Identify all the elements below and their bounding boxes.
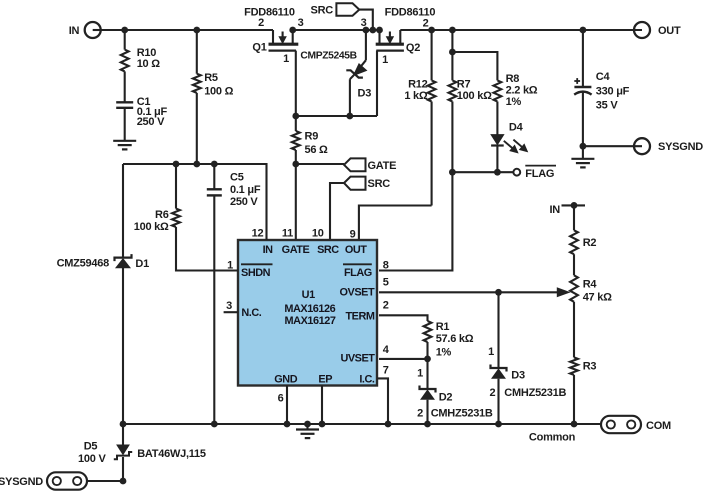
capacitor C1 <box>116 102 133 108</box>
svg-text:D4: D4 <box>509 121 524 133</box>
label D3b pin1 <box>488 346 494 358</box>
svg-text:56 Ω: 56 Ω <box>305 144 329 156</box>
junction dot C5 bottom <box>211 421 218 428</box>
junction dot D3 bottom <box>346 113 353 120</box>
label U1 pin OVSET <box>340 287 375 299</box>
wire rail Q1 to Q2 <box>293 29 380 31</box>
label Q2 pin 3 <box>361 17 367 29</box>
svg-text:CMHZ5231B: CMHZ5231B <box>431 408 493 420</box>
svg-text:IN: IN <box>263 244 274 256</box>
label U1 pin SRC <box>317 244 339 256</box>
wire C4 bottom <box>582 93 584 147</box>
junction dot D3 top <box>363 27 370 34</box>
wire pin7 IC <box>377 378 388 424</box>
label U1 MAX16126 <box>284 303 335 315</box>
label CMPZ5245B <box>300 51 356 62</box>
resistor R1 <box>424 321 432 342</box>
label D3b <box>511 369 525 381</box>
svg-text:SYSGND: SYSGND <box>658 141 703 153</box>
wire C4 top <box>582 30 584 87</box>
junction dot R5 bottom <box>193 161 200 168</box>
label U1 pin TERM <box>345 311 374 323</box>
label FLAG <box>525 166 556 181</box>
wire R10 to C1 <box>124 71 126 102</box>
wire D1 top <box>122 164 124 257</box>
ground C1 <box>113 141 136 150</box>
label Q1 <box>252 42 266 54</box>
svg-text:7: 7 <box>383 365 389 377</box>
wire EP pin <box>321 386 323 425</box>
label pin 4 <box>383 344 390 356</box>
label R2 <box>583 237 597 249</box>
transistor Q2 FDD86110 <box>376 30 404 51</box>
label U1 pin IC <box>359 373 375 385</box>
label pin 6 <box>278 393 284 405</box>
capacitor C4 <box>574 78 591 95</box>
net tag GATE <box>344 158 366 171</box>
svg-text:12: 12 <box>252 228 264 240</box>
junction dot D1 bottom <box>120 421 127 428</box>
label Q1 FDD86110 <box>244 7 295 19</box>
label D3b pin2 <box>489 387 495 399</box>
svg-text:R4: R4 <box>583 278 598 290</box>
junction dot R7 FLAG <box>449 169 456 176</box>
wire to GATE tag <box>296 163 344 165</box>
label R9 <box>305 131 329 156</box>
wire gate net <box>296 115 377 117</box>
resistor R7 <box>449 80 457 101</box>
label C1 <box>137 96 168 128</box>
svg-text:IN: IN <box>69 25 80 37</box>
label pin 8 <box>383 259 389 271</box>
wire R12 bottom <box>431 102 433 206</box>
svg-text:R12: R12 <box>408 79 428 91</box>
svg-text:C5: C5 <box>230 172 244 184</box>
label OUT <box>658 25 681 37</box>
svg-text:Q1: Q1 <box>252 42 266 54</box>
junction dot R6 top <box>173 161 180 168</box>
label U1 pin FLAG <box>343 264 372 279</box>
svg-text:1: 1 <box>382 54 388 66</box>
junction dot C4 gnd <box>580 143 587 150</box>
wire C5 top <box>213 164 215 189</box>
junction dot D2 bottom <box>424 421 431 428</box>
label IN right <box>550 204 561 216</box>
wire FLAG <box>452 171 513 173</box>
wire IN to R2 <box>573 205 575 230</box>
label R1 <box>436 321 474 358</box>
svg-text:C4: C4 <box>596 71 611 83</box>
svg-text:1: 1 <box>283 53 289 65</box>
label R5 <box>204 72 233 98</box>
label Q1 pin 1 <box>283 53 289 65</box>
resistor R6 <box>172 209 180 227</box>
svg-text:10 Ω: 10 Ω <box>137 58 161 70</box>
wire D3b top <box>497 292 499 368</box>
wire R9 top <box>295 116 297 131</box>
wire D5 top <box>122 424 124 445</box>
svg-text:R2: R2 <box>583 237 597 249</box>
wire pin2 TERM <box>379 315 428 321</box>
op-amp U1 MAX16126 body <box>238 240 377 386</box>
svg-text:250 V: 250 V <box>137 116 165 128</box>
wire R3 bottom <box>573 375 575 424</box>
svg-text:R1: R1 <box>436 321 450 333</box>
junction dot SYSGND <box>120 478 127 485</box>
svg-text:2: 2 <box>258 17 264 29</box>
svg-text:1: 1 <box>488 346 494 358</box>
label U1 pin IN <box>263 244 274 256</box>
svg-text:2: 2 <box>417 408 423 420</box>
wire pin4 UVSET <box>379 358 428 360</box>
junction dot D4 bottom <box>494 169 501 176</box>
svg-text:FLAG: FLAG <box>344 267 372 279</box>
junction dot UVSET R1 <box>424 356 431 363</box>
svg-text:I.C.: I.C. <box>359 373 375 385</box>
label CMZ59468 <box>57 258 110 270</box>
label GATE tag <box>368 160 397 172</box>
junction dot R5 branch <box>193 27 200 34</box>
svg-text:SHDN: SHDN <box>241 267 271 279</box>
wire pin5 OVSET <box>379 291 558 293</box>
wire R12 top <box>431 30 433 80</box>
wire rail Q2 to OUT <box>400 29 642 31</box>
wire C1 to ground <box>124 108 126 140</box>
svg-text:U1: U1 <box>302 289 315 301</box>
node SYSGND bottom terminal <box>47 472 87 489</box>
svg-text:OUT: OUT <box>658 25 681 37</box>
resistor R12 <box>428 80 436 101</box>
svg-text:EP: EP <box>318 373 332 385</box>
wire R1 bottom <box>426 342 428 359</box>
svg-text:2: 2 <box>423 18 429 30</box>
label D2 pin2 <box>417 408 423 420</box>
label pin 1 <box>227 259 233 271</box>
svg-text:11: 11 <box>282 228 293 240</box>
svg-text:5: 5 <box>383 277 389 289</box>
junction dot R10 branch <box>121 27 128 34</box>
junction dot IN tick <box>571 202 578 209</box>
wire pin9 to R12 <box>359 206 432 241</box>
svg-text:2.2 kΩ: 2.2 kΩ <box>506 84 538 96</box>
wire R7 top <box>451 30 453 80</box>
diode D3 CMPZ5245B <box>346 30 366 116</box>
label Q1 pin 2 <box>258 17 264 29</box>
svg-text:2: 2 <box>383 299 389 311</box>
wire R5 bottom <box>196 93 198 164</box>
label IN <box>69 25 80 37</box>
svg-text:8: 8 <box>383 259 389 271</box>
svg-text:6: 6 <box>278 393 284 405</box>
junction dot pin7 <box>385 421 392 428</box>
svg-text:MAX16127: MAX16127 <box>285 315 336 327</box>
junction dot Q1 source <box>289 27 296 34</box>
label Common <box>529 431 576 443</box>
label R3 <box>583 360 597 372</box>
svg-text:N.C.: N.C. <box>241 307 261 319</box>
diode D1 CMZ59468 <box>115 254 132 268</box>
label D3 <box>358 88 372 100</box>
wire pin3 stub <box>224 311 238 313</box>
svg-text:BAT46WJ,115: BAT46WJ,115 <box>137 448 206 460</box>
wire GND pin6 <box>286 386 288 425</box>
svg-text:SRC: SRC <box>317 244 339 256</box>
wire pin8 <box>379 172 452 270</box>
node IN input terminal <box>85 22 101 38</box>
wire R6 top <box>175 164 177 209</box>
label pin 9 <box>350 229 356 241</box>
svg-text:100 kΩ: 100 kΩ <box>457 90 492 102</box>
label Q1 pin 3 <box>298 17 304 29</box>
label D2 pin1 <box>417 368 423 380</box>
resistor R4 potentiometer <box>570 275 578 302</box>
wire R8 to D4 <box>496 102 498 135</box>
svg-text:3: 3 <box>226 300 232 312</box>
label SYSGND right <box>658 141 703 153</box>
label pin 10 <box>312 228 324 240</box>
label D3b part <box>504 387 566 399</box>
ground C4 <box>571 159 594 168</box>
net tag SRC top <box>336 3 359 16</box>
label Q2 <box>406 42 420 54</box>
label D4 <box>509 121 524 133</box>
junction dot D3b branch <box>495 289 502 296</box>
wire R2 to R4 <box>573 254 575 275</box>
junction dot EP <box>319 421 326 428</box>
svg-text:FLAG: FLAG <box>525 168 554 180</box>
svg-text:GND: GND <box>274 373 297 385</box>
label R12 <box>404 79 428 103</box>
svg-text:R8: R8 <box>506 73 520 85</box>
label pin 11 <box>282 228 293 240</box>
node OUT terminal <box>634 22 650 38</box>
svg-text:SYSGND: SYSGND <box>0 476 43 488</box>
junction dot D3b bottom <box>495 421 502 428</box>
svg-text:100 Ω: 100 Ω <box>204 86 233 98</box>
svg-text:1: 1 <box>417 368 423 380</box>
label pin 5 <box>383 277 389 289</box>
label pin 3 <box>226 300 232 312</box>
wire IN rail to Q1 drain <box>101 29 273 31</box>
svg-text:D1: D1 <box>135 258 149 270</box>
label U1 pin OUT <box>345 244 367 256</box>
svg-text:R3: R3 <box>583 360 597 372</box>
resistor R2 <box>570 230 578 254</box>
diode D2 CMHZ5231B <box>420 386 436 400</box>
svg-text:35 V: 35 V <box>596 99 619 111</box>
wire R9 bottom <box>295 150 297 164</box>
wire Q2 gate <box>376 51 378 116</box>
svg-text:D3: D3 <box>511 369 525 381</box>
junction dot C5 top <box>211 161 218 168</box>
svg-text:47 kΩ: 47 kΩ <box>583 292 612 304</box>
svg-text:2: 2 <box>489 387 495 399</box>
junction dot R3 bottom <box>571 421 578 428</box>
svg-text:9: 9 <box>350 229 356 241</box>
label U1 pin GATE <box>282 244 310 256</box>
wire R10 top <box>124 30 126 50</box>
label U1 pin UVSET <box>340 352 375 364</box>
wire C4 gnd stub <box>582 146 584 158</box>
junction dot R7 top <box>449 27 456 34</box>
node FLAG circle <box>513 169 520 176</box>
label U1 name <box>302 289 315 301</box>
label R8 <box>506 73 538 108</box>
wire D3b bottom <box>497 379 499 424</box>
svg-text:D3: D3 <box>358 88 372 100</box>
svg-text:R6: R6 <box>155 209 169 221</box>
svg-text:3: 3 <box>361 17 367 29</box>
svg-text:100 kΩ: 100 kΩ <box>134 221 169 233</box>
svg-text:3: 3 <box>298 17 304 29</box>
svg-text:0.1 μF: 0.1 μF <box>230 184 261 196</box>
wire SRC tag to pin10 <box>330 183 344 240</box>
svg-text:250 V: 250 V <box>230 196 258 208</box>
label D2 part <box>431 408 493 420</box>
junction dot SRC tag <box>369 27 376 34</box>
svg-text:TERM: TERM <box>345 311 374 323</box>
svg-text:GATE: GATE <box>282 244 310 256</box>
wire R5 top <box>196 30 198 74</box>
wire pin11 <box>295 164 297 240</box>
label COM <box>646 420 671 432</box>
svg-text:IN: IN <box>550 204 561 216</box>
svg-text:57.6 kΩ: 57.6 kΩ <box>436 333 474 345</box>
wire D1 bottom <box>122 268 124 424</box>
label SRC mid <box>368 178 391 190</box>
wire Q1 gate <box>295 51 297 116</box>
svg-text:SRC: SRC <box>368 178 391 190</box>
svg-text:1 kΩ: 1 kΩ <box>404 90 428 102</box>
junction dot GND <box>284 421 291 428</box>
wire SRC tag to rail <box>359 10 373 30</box>
svg-text:R9: R9 <box>305 131 319 143</box>
label U1 pin NC <box>241 307 261 319</box>
label R7 <box>457 79 492 103</box>
label C5 <box>230 172 261 208</box>
label pin 7 <box>383 365 389 377</box>
wire R8 branch <box>452 52 497 80</box>
svg-text:FDD86110: FDD86110 <box>244 7 295 19</box>
label U1 MAX16127 <box>285 315 336 327</box>
wire D4 bottom <box>496 146 498 173</box>
wire lower-left rail <box>123 164 267 240</box>
net tag SRC mid <box>344 177 366 190</box>
svg-text:COM: COM <box>646 420 671 432</box>
label Q2 pin 1 <box>382 54 388 66</box>
svg-text:330 μF: 330 μF <box>596 86 630 98</box>
junction dot GATE tag <box>292 161 299 168</box>
resistor R5 <box>193 74 201 93</box>
svg-text:MAX16126: MAX16126 <box>284 303 335 315</box>
arrow R4 wiper <box>557 288 569 297</box>
svg-text:UVSET: UVSET <box>340 352 375 364</box>
resistor R3 <box>570 357 578 375</box>
ground main <box>296 421 319 439</box>
svg-text:OUT: OUT <box>345 244 367 256</box>
svg-text:R5: R5 <box>204 72 218 84</box>
label Q2 FDD86110 <box>385 7 436 19</box>
svg-text:1%: 1% <box>436 346 452 358</box>
label Q2 pin 2 <box>423 18 429 30</box>
label 100V <box>78 453 106 465</box>
svg-text:R7: R7 <box>457 79 471 91</box>
junction dot C4 top <box>580 27 587 34</box>
wire D2 bottom <box>426 400 428 424</box>
junction dot Q2 source <box>376 27 383 34</box>
svg-text:Q2: Q2 <box>406 42 420 54</box>
label D1 <box>135 258 149 270</box>
svg-text:GATE: GATE <box>368 160 397 172</box>
wire D5 bottom <box>122 457 124 481</box>
resistor R9 <box>292 131 300 150</box>
svg-text:CMZ59468: CMZ59468 <box>57 258 110 270</box>
transistor Q1 FDD86110 <box>269 30 299 51</box>
label pin 2 <box>383 299 389 311</box>
junction dot R8 branch <box>449 49 456 56</box>
label pin 12 <box>252 228 264 240</box>
junction dot gate net left <box>292 113 299 120</box>
node IN tick <box>562 204 586 206</box>
svg-text:SRC: SRC <box>311 5 334 17</box>
wire R6 to pin1 <box>176 227 238 271</box>
label SYSGND bottom <box>0 476 43 488</box>
wire R7 bottom <box>451 102 453 173</box>
wire to SYSGND oval <box>87 480 123 482</box>
junction dot R12 top <box>428 27 435 34</box>
label D5 <box>84 441 98 453</box>
svg-text:Common: Common <box>529 431 576 443</box>
label R6 <box>134 209 169 233</box>
label U1 pin EP <box>318 373 332 385</box>
label SRC top <box>311 5 334 17</box>
svg-text:100 V: 100 V <box>78 453 106 465</box>
svg-text:OVSET: OVSET <box>340 287 375 299</box>
diode D3 CMHZ5231B <box>491 365 507 379</box>
svg-text:1%: 1% <box>506 96 522 108</box>
svg-text:D2: D2 <box>439 391 453 403</box>
label BAT46WJ <box>137 448 206 460</box>
diode D5 BAT46WJ <box>114 445 132 459</box>
node SYSGND terminal <box>634 138 650 154</box>
capacitor C5 <box>207 189 222 195</box>
svg-text:D5: D5 <box>84 441 98 453</box>
svg-text:CMPZ5245B: CMPZ5245B <box>300 51 356 62</box>
resistor R8 <box>494 80 502 101</box>
svg-text:CMHZ5231B: CMHZ5231B <box>504 387 566 399</box>
label R10 <box>137 47 161 70</box>
label U1 pin SHDN <box>241 264 273 279</box>
label R4 <box>583 278 612 303</box>
wire to SYSGND terminal <box>583 145 642 147</box>
node COM terminal <box>601 416 641 433</box>
wire R4 to R3 <box>573 302 575 358</box>
wire D2 top <box>426 359 428 389</box>
wire bottom rail <box>123 423 601 425</box>
label U1 pin GND <box>274 373 297 385</box>
label C4 <box>596 71 630 111</box>
svg-text:10: 10 <box>312 228 324 240</box>
wire C5 bottom <box>213 195 215 424</box>
resistor R10 <box>121 50 129 72</box>
label D2 <box>439 391 453 403</box>
diode D4 LED <box>491 135 527 153</box>
